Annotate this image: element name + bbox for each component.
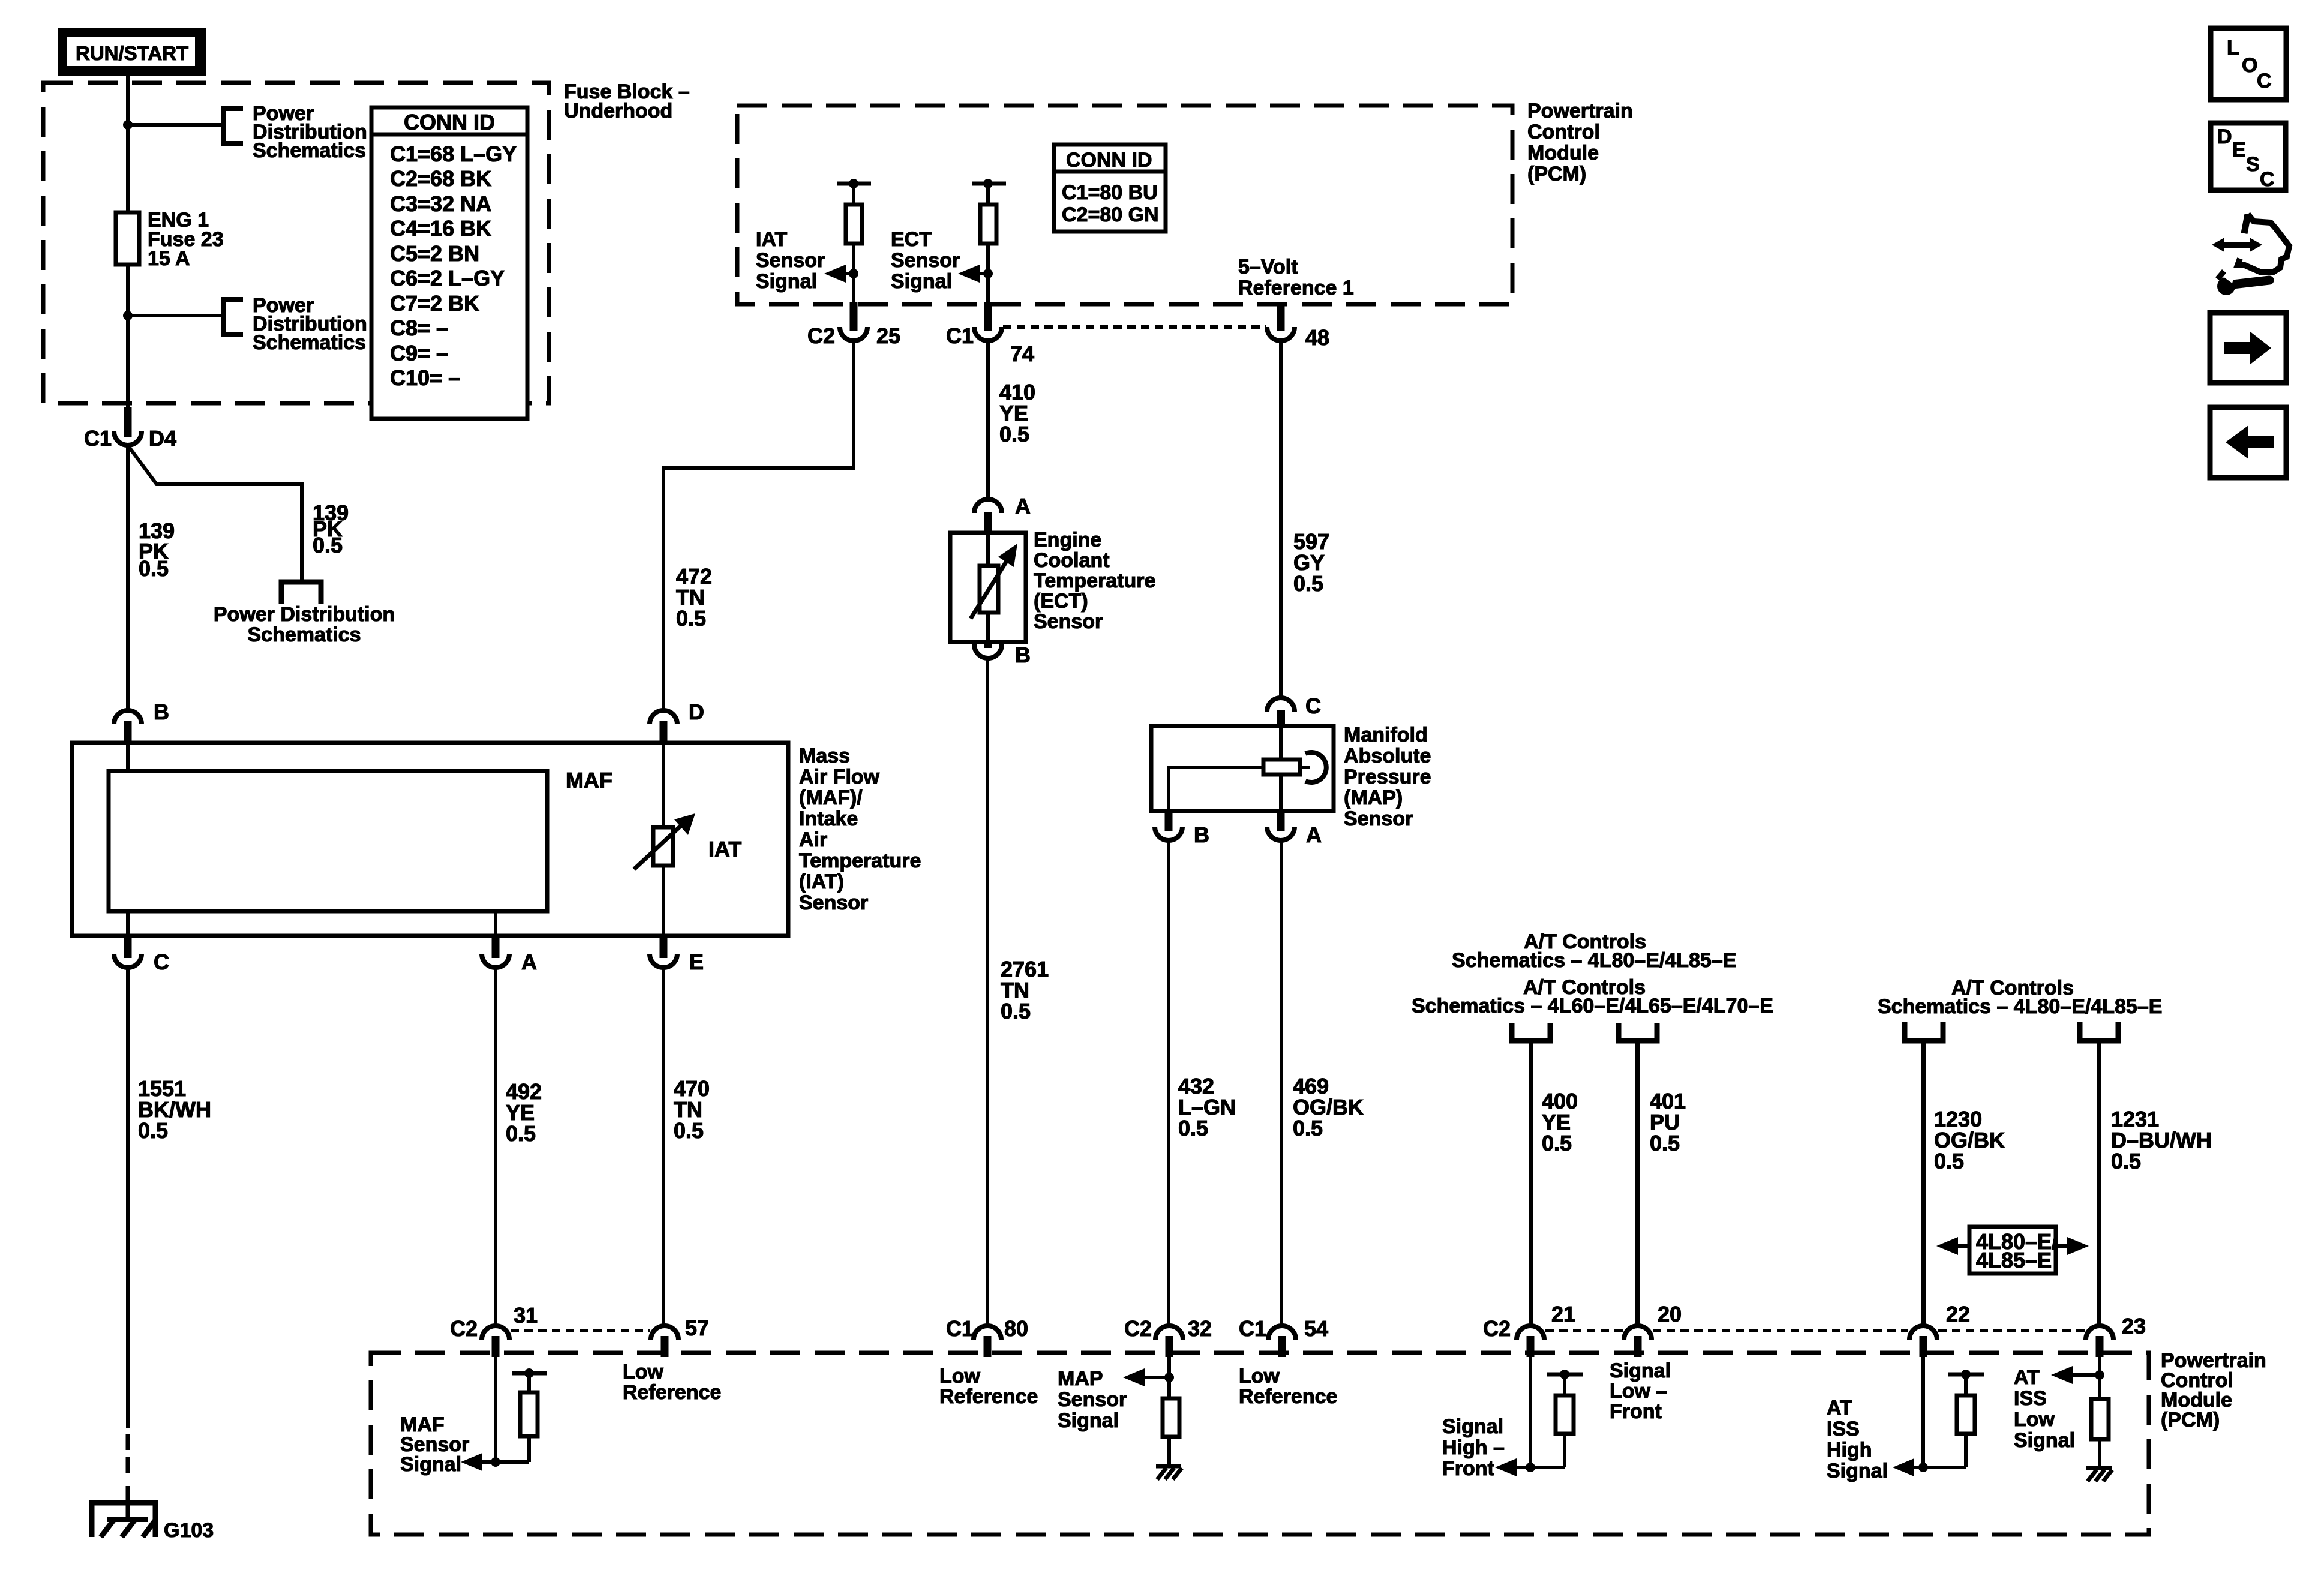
svg-text:D: D bbox=[689, 700, 704, 724]
connector C1 D4 cup bbox=[114, 431, 142, 445]
pin 32 internal wire bbox=[1167, 1357, 1171, 1398]
svg-text:B: B bbox=[1194, 822, 1209, 847]
pin 21 stub bbox=[1527, 1336, 1535, 1357]
wire 492 YE bbox=[494, 968, 497, 1326]
label 5-Volt Reference 1 bbox=[1238, 256, 1354, 299]
label 469 OG/BK 0.5 bbox=[1293, 1074, 1364, 1140]
MAF pin B stub bbox=[124, 721, 132, 744]
svg-text:C1=80 BU: C1=80 BU bbox=[1062, 181, 1158, 204]
label A/T Controls Schematics 4L80-E/4L85-E group2 bbox=[1878, 977, 2162, 1018]
svg-text:Power Distribution: Power Distribution bbox=[214, 603, 395, 626]
svg-text:Underhood: Underhood bbox=[564, 100, 672, 122]
svg-text:(IAT): (IAT) bbox=[799, 870, 844, 893]
pin 48 cup bbox=[1267, 327, 1295, 341]
svg-text:IAT: IAT bbox=[708, 837, 741, 861]
svg-text:L: L bbox=[2227, 37, 2239, 59]
MAP pin C stub bbox=[1277, 710, 1285, 727]
svg-text:(MAF)/: (MAF)/ bbox=[799, 786, 863, 809]
svg-text:Reference 1: Reference 1 bbox=[1238, 277, 1354, 299]
svg-text:Mass: Mass bbox=[799, 745, 850, 767]
off-page bracket up wire 1230 bbox=[1905, 1022, 1943, 1041]
svg-text:0.5: 0.5 bbox=[2111, 1149, 2141, 1173]
wire 472 TN from pin 25 to IAT pin D bbox=[663, 341, 854, 710]
pin 22 cup bbox=[1909, 1326, 1937, 1340]
junction dot signal high bbox=[1526, 1463, 1535, 1472]
svg-text:CONN ID: CONN ID bbox=[404, 110, 495, 134]
connector C1 D4 stub bbox=[124, 407, 132, 437]
pin 32 stub bbox=[1166, 1336, 1173, 1357]
svg-text:Sensor: Sensor bbox=[799, 891, 868, 914]
arrow MAP sensor signal bbox=[1137, 1376, 1169, 1379]
svg-text:Temperature: Temperature bbox=[1034, 569, 1155, 592]
label 2761 TN 0.5 bbox=[1001, 957, 1049, 1023]
icon back arrow box bbox=[2210, 407, 2286, 478]
icon electrical repair car bbox=[2212, 214, 2289, 295]
pin 54 cup C1 bbox=[1268, 1326, 1296, 1340]
junction dot ECT pullup bbox=[983, 179, 993, 188]
MAF pin C stub bbox=[124, 936, 132, 958]
svg-text:74: 74 bbox=[1010, 341, 1034, 366]
MAF sensor outer box bbox=[72, 743, 788, 936]
svg-text:B: B bbox=[1015, 643, 1031, 667]
IAT thermistor arrow bbox=[634, 823, 684, 869]
svg-text:C2=68 BK: C2=68 BK bbox=[390, 166, 491, 191]
wire IAT pullup bbox=[852, 184, 855, 205]
MAF pin E cup bbox=[650, 954, 677, 968]
svg-text:Signal: Signal bbox=[1058, 1409, 1119, 1432]
off-page bracket down power distribution bbox=[281, 582, 321, 604]
label 1231 D-BU/WH 0.5 bbox=[2111, 1107, 2212, 1173]
svg-text:C2: C2 bbox=[1483, 1316, 1511, 1341]
dotted connector line pins 31-57 bbox=[511, 1329, 650, 1332]
label IAT Sensor Signal bbox=[756, 228, 825, 293]
svg-text:C2: C2 bbox=[807, 323, 835, 348]
dotted connector line pins 22-23 bbox=[1938, 1329, 2085, 1332]
resistor ECT pullup bbox=[980, 205, 996, 244]
svg-text:5–Volt: 5–Volt bbox=[1238, 256, 1298, 278]
svg-text:20: 20 bbox=[1658, 1302, 1682, 1326]
svg-text:Control: Control bbox=[1527, 121, 1600, 143]
pin 20 stub bbox=[1634, 1336, 1642, 1357]
ECT internal wire top bbox=[986, 533, 990, 566]
junction dot AT ISS high termination bbox=[1961, 1370, 1971, 1379]
MAP port stub bbox=[1300, 766, 1310, 769]
label ENG 1 Fuse 23 15 A bbox=[148, 209, 224, 270]
svg-text:C: C bbox=[1305, 694, 1321, 718]
label MAF Sensor Signal bbox=[400, 1413, 469, 1476]
svg-text:ISS: ISS bbox=[2014, 1387, 2047, 1410]
T-bar AT ISS high termination bbox=[1948, 1373, 1984, 1377]
4L80-E/4L85-E range box bbox=[1969, 1227, 2058, 1274]
wire: RUN/START to fuse bbox=[126, 76, 130, 212]
svg-text:Schematics – 4L80–E/4L85–E: Schematics – 4L80–E/4L85–E bbox=[1452, 949, 1736, 972]
svg-text:G103: G103 bbox=[164, 1519, 214, 1542]
MAF pin A stub bbox=[492, 936, 500, 958]
label Signal Low Front bbox=[1610, 1359, 1671, 1423]
svg-text:C4=16 BK: C4=16 BK bbox=[390, 216, 491, 241]
label power distribution schematics 1 bbox=[253, 102, 367, 162]
wire IAT resistor to junction bbox=[852, 244, 855, 306]
resistor MAP termination bbox=[1163, 1398, 1179, 1437]
resistor AT ISS high termination bbox=[1964, 1434, 1968, 1467]
label Engine Coolant Temperature ECT Sensor bbox=[1034, 529, 1155, 633]
label 410 YE 0.5 bbox=[999, 380, 1035, 446]
svg-text:Low: Low bbox=[2014, 1408, 2055, 1431]
pin 21 cup C2 bbox=[1517, 1326, 1544, 1340]
pin 54 stub bbox=[1278, 1336, 1286, 1357]
label Signal High Front bbox=[1442, 1415, 1505, 1480]
svg-text:Signal: Signal bbox=[400, 1453, 461, 1476]
off-page bracket up wire 400 bbox=[1512, 1023, 1550, 1041]
svg-text:Signal: Signal bbox=[1442, 1415, 1503, 1438]
junction dot ECT signal bbox=[983, 269, 993, 278]
dotted connector line pins 20-22 bbox=[1653, 1329, 1908, 1332]
T-bar signal high termination bbox=[1547, 1373, 1583, 1377]
svg-text:0.5: 0.5 bbox=[1001, 999, 1031, 1023]
ground AT ISS low termination bbox=[2086, 1468, 2112, 1481]
label Fuse Block - Underhood bbox=[564, 80, 690, 122]
pin 74 stub bbox=[984, 302, 992, 331]
RUN/START switch label box bbox=[58, 28, 206, 76]
pin 80 stub bbox=[984, 1336, 992, 1357]
svg-text:Low: Low bbox=[1239, 1365, 1280, 1388]
wire 410 YE from pin 74 to ECT pin A bbox=[986, 341, 990, 499]
pin 57 cup bbox=[651, 1326, 678, 1340]
MAP port arc bbox=[1305, 752, 1326, 782]
svg-text:Intake: Intake bbox=[799, 807, 858, 830]
svg-text:C5=2 BN: C5=2 BN bbox=[390, 241, 479, 266]
svg-text:Temperature: Temperature bbox=[799, 849, 921, 872]
icon DESC box bbox=[2211, 123, 2286, 191]
wire branch to power distribution 2 bbox=[128, 314, 224, 317]
pin 21 internal wire bbox=[1529, 1357, 1532, 1467]
pin 23 stub bbox=[2096, 1336, 2104, 1357]
svg-text:Low –: Low – bbox=[1610, 1380, 1667, 1403]
pin 80 cup C1 bbox=[974, 1326, 1001, 1340]
svg-text:Absolute: Absolute bbox=[1344, 745, 1431, 767]
off-page bracket up wire 1231 bbox=[2080, 1022, 2118, 1041]
wire 139 PK left run bbox=[126, 444, 130, 710]
label 139 PK 0.5 right bbox=[313, 500, 349, 557]
svg-text:Signal: Signal bbox=[2014, 1429, 2075, 1452]
svg-text:C7=2 BK: C7=2 BK bbox=[390, 291, 479, 316]
svg-text:O: O bbox=[2242, 54, 2257, 77]
svg-text:Signal: Signal bbox=[756, 270, 817, 293]
svg-text:0.5: 0.5 bbox=[674, 1118, 704, 1143]
IAT pullup T-bar bbox=[837, 182, 871, 186]
dotted connector line pins 21-20 bbox=[1545, 1329, 1623, 1332]
svg-text:Signal: Signal bbox=[1610, 1359, 1671, 1382]
svg-text:C1: C1 bbox=[946, 323, 974, 348]
svg-text:C2=80 GN: C2=80 GN bbox=[1062, 203, 1159, 226]
svg-text:0.5: 0.5 bbox=[313, 533, 343, 557]
pin 23 cup bbox=[2086, 1326, 2113, 1340]
svg-text:C1: C1 bbox=[1239, 1316, 1266, 1341]
MAP internal wire A bbox=[1279, 775, 1283, 811]
svg-text:C1: C1 bbox=[946, 1316, 974, 1341]
svg-text:A: A bbox=[1306, 822, 1322, 847]
MAF pin A cup bbox=[482, 954, 509, 968]
svg-text:ISS: ISS bbox=[1827, 1418, 1860, 1440]
label 470 TN 0.5 bbox=[674, 1076, 710, 1143]
svg-text:(MAP): (MAP) bbox=[1344, 786, 1403, 809]
label 472 TN 0.5 bbox=[676, 564, 712, 631]
svg-text:0.5: 0.5 bbox=[1542, 1131, 1572, 1155]
svg-text:Powertrain: Powertrain bbox=[1527, 100, 1633, 122]
svg-text:0.5: 0.5 bbox=[1293, 571, 1323, 596]
ground G103 bbox=[89, 1486, 158, 1537]
label Powertrain Control Module PCM bottom bbox=[2161, 1349, 2266, 1431]
svg-text:22: 22 bbox=[1946, 1302, 1970, 1326]
off-page bracket up wire 401 bbox=[1619, 1023, 1657, 1041]
wire 2761 TN to pin 80 bbox=[986, 658, 989, 1326]
svg-text:B: B bbox=[154, 700, 169, 724]
off-page bracket power distribution 1 bbox=[224, 109, 243, 143]
svg-text:C9= –: C9= – bbox=[390, 341, 448, 365]
arrow IAT sensor signal bbox=[839, 272, 854, 275]
svg-text:Manifold: Manifold bbox=[1344, 724, 1428, 746]
wire: fuse to box bottom bbox=[126, 265, 130, 409]
arrow AT ISS High Signal bbox=[1907, 1466, 1966, 1469]
dotted connector line C1 top bbox=[1003, 325, 1266, 329]
svg-text:54: 54 bbox=[1304, 1316, 1328, 1341]
wire 1231 D-BU/WH bbox=[2097, 1041, 2101, 1326]
svg-text:Sensor: Sensor bbox=[1344, 807, 1413, 830]
svg-text:Signal: Signal bbox=[1827, 1460, 1888, 1482]
svg-text:C3=32 NA: C3=32 NA bbox=[390, 191, 491, 216]
svg-text:Reference: Reference bbox=[939, 1385, 1038, 1408]
wire 432 L-GN bbox=[1167, 840, 1170, 1326]
fuse ENG1 bbox=[116, 212, 139, 265]
label AT ISS Low Signal bbox=[2014, 1366, 2075, 1452]
ECT pin B cup bbox=[974, 644, 1002, 658]
svg-text:MAF: MAF bbox=[566, 768, 612, 792]
label Powertrain Control Module PCM top bbox=[1527, 100, 1633, 185]
ECT internal wire bottom bbox=[986, 613, 990, 642]
svg-text:C10= –: C10= – bbox=[390, 365, 460, 390]
label A/T Controls Schematics 4L80-E/4L85-E group1 bbox=[1412, 930, 1773, 1017]
svg-text:Low: Low bbox=[623, 1361, 664, 1383]
label Low Reference pin 54 bbox=[1239, 1365, 1337, 1408]
label AT ISS High Signal bbox=[1827, 1397, 1888, 1482]
svg-text:Sensor: Sensor bbox=[1058, 1388, 1127, 1411]
svg-text:0.5: 0.5 bbox=[1650, 1131, 1680, 1155]
svg-text:C: C bbox=[2257, 70, 2272, 92]
MAP pin C cup bbox=[1267, 698, 1295, 712]
T-bar MAF termination bbox=[512, 1371, 547, 1376]
svg-text:48: 48 bbox=[1305, 325, 1329, 350]
resistor IAT pullup bbox=[846, 205, 862, 244]
junction dot IAT pullup bbox=[849, 179, 858, 188]
svg-text:Front: Front bbox=[1442, 1457, 1494, 1480]
wire branch to power distribution 1 bbox=[128, 123, 224, 127]
fuse block underhood dashed box bbox=[43, 83, 549, 403]
pin 48 stub bbox=[1277, 302, 1285, 331]
wire 1230 OG/BK bbox=[1921, 1041, 1926, 1326]
MAF internal wire C bbox=[126, 911, 130, 936]
svg-text:Signal: Signal bbox=[891, 270, 952, 293]
svg-text:15 A: 15 A bbox=[148, 247, 190, 270]
label MAP Sensor Signal bbox=[1058, 1367, 1127, 1432]
pin 22 stub bbox=[1920, 1336, 1927, 1357]
svg-text:Module: Module bbox=[1527, 142, 1599, 164]
junction dot AT ISS low bbox=[2095, 1370, 2104, 1380]
label 1230 OG/BK 0.5 bbox=[1934, 1107, 2005, 1173]
MAF pin C cup bbox=[114, 954, 142, 968]
svg-text:Air: Air bbox=[799, 828, 827, 851]
svg-text:IAT: IAT bbox=[756, 228, 787, 251]
junction dot IAT signal bbox=[849, 269, 858, 278]
ECT thermistor rect bbox=[980, 566, 998, 613]
svg-text:C: C bbox=[154, 950, 169, 974]
wire 469 OG/BK bbox=[1280, 840, 1283, 1326]
svg-text:(ECT): (ECT) bbox=[1034, 590, 1088, 613]
arrow MAF sensor signal bbox=[474, 1460, 529, 1464]
svg-text:ECT: ECT bbox=[891, 228, 932, 251]
arrow left 4L80 box bbox=[1951, 1244, 1969, 1248]
wire 1551 BK/WH bbox=[126, 968, 130, 1428]
svg-text:E: E bbox=[689, 950, 704, 974]
pin 57 stub bbox=[661, 1336, 669, 1357]
resistor signal high termination bbox=[1563, 1434, 1566, 1467]
svg-text:D: D bbox=[2217, 125, 2232, 148]
wire dashed to ground bbox=[126, 1434, 130, 1450]
svg-text:25: 25 bbox=[876, 323, 900, 348]
junction dot MAF signal bbox=[491, 1457, 500, 1467]
label Low Reference pin 57 bbox=[623, 1361, 721, 1404]
wire to ground MAP bbox=[1167, 1437, 1171, 1466]
icon LOC box bbox=[2211, 28, 2286, 100]
svg-text:Schematics – 4L60–E/4L65–E/4L7: Schematics – 4L60–E/4L65–E/4L70–E bbox=[1412, 995, 1773, 1017]
wire 470 TN bbox=[662, 968, 665, 1326]
MAF pin B cup bbox=[114, 710, 142, 724]
junction dot node 1 bbox=[123, 120, 133, 130]
wire ECT pullup bbox=[986, 184, 990, 205]
MAP pin A stub bbox=[1277, 811, 1285, 831]
svg-text:C6=2 L–GY: C6=2 L–GY bbox=[390, 266, 505, 290]
svg-text:31: 31 bbox=[514, 1303, 538, 1328]
MAF pin E stub bbox=[660, 936, 668, 958]
svg-text:Sensor: Sensor bbox=[1034, 610, 1103, 633]
svg-text:C2: C2 bbox=[1124, 1316, 1152, 1341]
wire 597 GY from pin 48 to MAP pin C bbox=[1279, 341, 1283, 698]
pin 32 cup C2 bbox=[1155, 1326, 1183, 1340]
CONN ID table fuse block bbox=[371, 107, 527, 419]
svg-text:Reference: Reference bbox=[623, 1381, 721, 1404]
label ECT Sensor Signal bbox=[891, 228, 960, 293]
svg-text:S: S bbox=[2246, 153, 2260, 176]
arrow ECT sensor signal bbox=[973, 272, 988, 275]
resistor AT ISS low termination bbox=[2091, 1399, 2109, 1439]
IAT thermistor rect bbox=[653, 827, 673, 866]
label 432 L-GN 0.5 bbox=[1178, 1074, 1236, 1140]
svg-text:4L85–E: 4L85–E bbox=[1976, 1248, 2052, 1272]
MAP pin B cup bbox=[1155, 827, 1182, 840]
label 597 GY 0.5 bbox=[1293, 529, 1329, 596]
MAP pin A cup bbox=[1267, 827, 1295, 840]
MAP internal wire C bbox=[1279, 726, 1283, 760]
svg-text:Reference: Reference bbox=[1239, 1385, 1337, 1408]
label Low Reference pin 80 bbox=[939, 1365, 1038, 1408]
ECT thermistor arrow bbox=[971, 559, 1008, 619]
pin 31 internal wire bbox=[494, 1357, 497, 1462]
svg-text:Front: Front bbox=[1610, 1400, 1662, 1423]
pin 74 cup C1 bbox=[974, 327, 1002, 341]
svg-text:0.5: 0.5 bbox=[506, 1121, 536, 1146]
ECT pin A cup bbox=[974, 499, 1002, 513]
MAF pin D cup bbox=[650, 710, 677, 724]
arrow right 4L80 box bbox=[2056, 1244, 2074, 1248]
junction dot MAP signal bbox=[1164, 1373, 1174, 1382]
svg-text:A: A bbox=[521, 950, 537, 974]
ground MAP termination bbox=[1156, 1466, 1182, 1479]
svg-text:C2: C2 bbox=[450, 1316, 478, 1341]
MAF internal wire IAT bbox=[662, 743, 665, 827]
ECT pin A stub bbox=[984, 512, 992, 534]
svg-text:Pressure: Pressure bbox=[1344, 766, 1431, 788]
label Manifold Absolute Pressure MAP Sensor bbox=[1344, 724, 1431, 830]
pin 31 cup C2 bbox=[482, 1326, 509, 1340]
svg-text:Sensor: Sensor bbox=[891, 249, 960, 272]
svg-text:0.5: 0.5 bbox=[1178, 1116, 1208, 1140]
svg-text:0.5: 0.5 bbox=[138, 1118, 168, 1143]
wire ECT resistor to junction bbox=[986, 244, 990, 306]
off-page bracket power distribution 2 bbox=[224, 299, 243, 334]
svg-text:0.5: 0.5 bbox=[1293, 1116, 1323, 1140]
arrow Signal High Front bbox=[1509, 1466, 1565, 1469]
svg-text:AT: AT bbox=[2014, 1366, 2040, 1389]
svg-text:(PCM): (PCM) bbox=[2161, 1409, 2220, 1431]
pin 20 cup bbox=[1624, 1326, 1652, 1340]
svg-text:Air Flow: Air Flow bbox=[799, 766, 880, 788]
ECT pin B stub bbox=[984, 641, 992, 648]
svg-text:21: 21 bbox=[1551, 1302, 1575, 1326]
svg-text:Coolant: Coolant bbox=[1034, 549, 1110, 572]
svg-text:Schematics: Schematics bbox=[253, 331, 366, 354]
junction dot MAF termination bbox=[524, 1368, 534, 1378]
MAF inner box bbox=[109, 771, 547, 911]
wire 401 PU bbox=[1635, 1041, 1640, 1326]
svg-text:D4: D4 bbox=[149, 426, 176, 451]
svg-text:C8= –: C8= – bbox=[390, 316, 448, 340]
MAF internal wire B bbox=[126, 743, 130, 771]
wire 400 YE bbox=[1529, 1041, 1533, 1326]
svg-text:0.5: 0.5 bbox=[139, 556, 169, 581]
svg-text:(PCM): (PCM) bbox=[1527, 163, 1586, 185]
svg-text:High –: High – bbox=[1442, 1436, 1505, 1459]
junction dot node 2 bbox=[123, 311, 133, 320]
icon forward arrow box bbox=[2210, 313, 2286, 383]
svg-text:80: 80 bbox=[1004, 1316, 1028, 1341]
svg-text:0.5: 0.5 bbox=[1934, 1149, 1964, 1173]
MAF pin D stub bbox=[660, 721, 668, 744]
MAP internal wire B bbox=[1169, 767, 1263, 811]
junction dot signal high termination bbox=[1560, 1370, 1569, 1379]
MAF internal wire A bbox=[494, 911, 497, 936]
svg-text:Low: Low bbox=[939, 1365, 981, 1388]
pin 25 stub bbox=[850, 302, 858, 331]
svg-text:Schematics – 4L80–E/4L85–E: Schematics – 4L80–E/4L85–E bbox=[1878, 995, 2162, 1018]
svg-text:Schematics: Schematics bbox=[248, 623, 361, 646]
label 401 PU 0.5 bbox=[1650, 1089, 1686, 1155]
label power distribution schematics 2 bbox=[253, 294, 367, 354]
svg-text:57: 57 bbox=[685, 1316, 709, 1340]
svg-text:23: 23 bbox=[2122, 1314, 2146, 1338]
label power distribution schematics center bbox=[214, 603, 395, 646]
pin 31 stub bbox=[492, 1336, 500, 1357]
pin 23 internal wire bbox=[2098, 1357, 2101, 1399]
junction dot AT ISS high bbox=[1918, 1463, 1928, 1472]
